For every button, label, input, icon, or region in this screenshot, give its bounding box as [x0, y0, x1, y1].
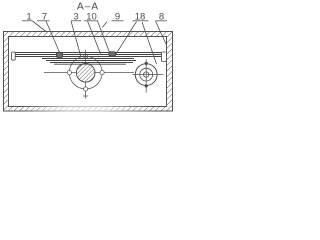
svg-text:A–A: A–A — [77, 2, 99, 13]
